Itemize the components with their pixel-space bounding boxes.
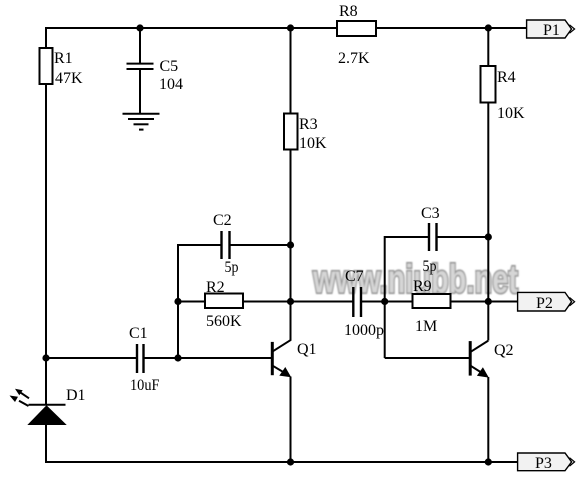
wire top rail right [376,27,527,29]
svg-text:C3: C3 [421,205,440,222]
connector P1 [527,20,575,39]
svg-text:R8: R8 [339,3,358,20]
resistor R4 [481,66,526,122]
wire C2 row left [178,244,222,246]
svg-text:R4: R4 [497,69,516,86]
junction left rail / C1 row [42,354,49,361]
svg-text:5p: 5p [225,259,239,276]
wire C3 row right [437,236,489,238]
LED D1 arrow upper [15,389,29,399]
wire C1 row left [46,357,137,359]
svg-text:R2: R2 [206,279,225,296]
wire Q1 emitter to bottom rail [290,377,292,463]
svg-text:R3: R3 [299,116,318,133]
svg-text:C7: C7 [345,268,364,285]
transistor Q1 [272,340,316,378]
junction middle rail / C2 row [287,241,294,248]
resistor R8 [337,3,376,67]
transistor Q2 [470,341,513,378]
junction C7 / R9 vertical [381,298,388,305]
svg-text:Q1: Q1 [297,341,317,358]
svg-text:10K: 10K [497,105,525,122]
resistor R9 [413,278,451,335]
junction right rail / R9 row [485,298,492,305]
svg-text:P1: P1 [543,22,560,39]
wire Q2 emitter to bottom rail [487,377,489,462]
svg-text:10uF: 10uF [130,377,160,394]
svg-text:P2: P2 [536,295,553,312]
wire C5 stem lower [139,69,141,114]
resistor R3 [284,114,327,153]
ground [123,114,160,130]
resistor R1 [40,48,84,87]
wire C2/R2 left vertical [177,244,179,358]
junction top rail / middle rail [287,24,294,31]
LED D1 [29,387,86,425]
svg-text:C2: C2 [213,212,232,229]
svg-text:1M: 1M [415,318,437,335]
wire D1 cathode to bottom rail [45,424,47,463]
wire top rail left (node VCC) [46,27,337,29]
wire left rail lower [45,84,47,405]
wire R2 to C7 [243,301,353,303]
junction right rail / bottom rail [485,458,492,465]
junction top rail / right rail [485,24,492,31]
wire C3/R9 left vertical [384,236,386,358]
junction C2 vertical / C1 row [174,354,181,361]
svg-text:47K: 47K [55,70,83,87]
svg-text:Q2: Q2 [494,342,514,359]
wire C1 to Q1 base [144,357,273,359]
LED D1 arrow lower [10,396,29,407]
wire right rail middle [487,103,489,341]
wire R2 row left [178,301,205,303]
svg-text:C1: C1 [129,325,148,342]
svg-text:C5: C5 [160,58,179,75]
svg-text:5p: 5p [423,258,437,275]
wire left rail upper [45,27,47,48]
wire C7 to R9 [361,301,413,303]
wire Q2 base row [385,357,471,359]
svg-text:104: 104 [159,76,183,93]
svg-text:10K: 10K [299,135,327,152]
capacitor C5 [127,58,184,93]
junction Q1 emitter / bottom rail [287,458,294,465]
capacitor C1 [129,325,160,394]
svg-text:R1: R1 [54,50,73,67]
svg-text:D1: D1 [66,387,86,404]
wire middle rail lower [290,150,292,341]
junction right rail / C3 row [485,233,492,240]
wire R9 to P2 [451,301,518,303]
watermark www.niubb.net [312,258,518,302]
capacitor C2 [213,212,239,276]
svg-text:2.7K: 2.7K [338,50,370,67]
junction middle rail / R2 row [287,298,294,305]
capacitor C3 [421,205,440,275]
wire right rail upper (node P1) [487,28,489,66]
svg-text:1000p: 1000p [344,322,384,339]
capacitor C7 [344,268,384,339]
wire C3 row left [385,236,429,238]
connector P2 [518,292,575,312]
svg-text:R9: R9 [413,278,432,295]
svg-text:560K: 560K [206,313,242,330]
svg-text:P3: P3 [535,455,552,472]
wire C2 row right [230,244,291,246]
wire middle rail upper (node B) [290,28,292,114]
wire C5 stem upper [139,28,141,63]
junction top rail / C5 [136,24,143,31]
wire bottom rail (node GND-ish to P3) [45,461,518,463]
connector P3 [518,453,575,472]
junction C2 vertical / R2 row [174,298,181,305]
resistor R2 [205,279,243,330]
